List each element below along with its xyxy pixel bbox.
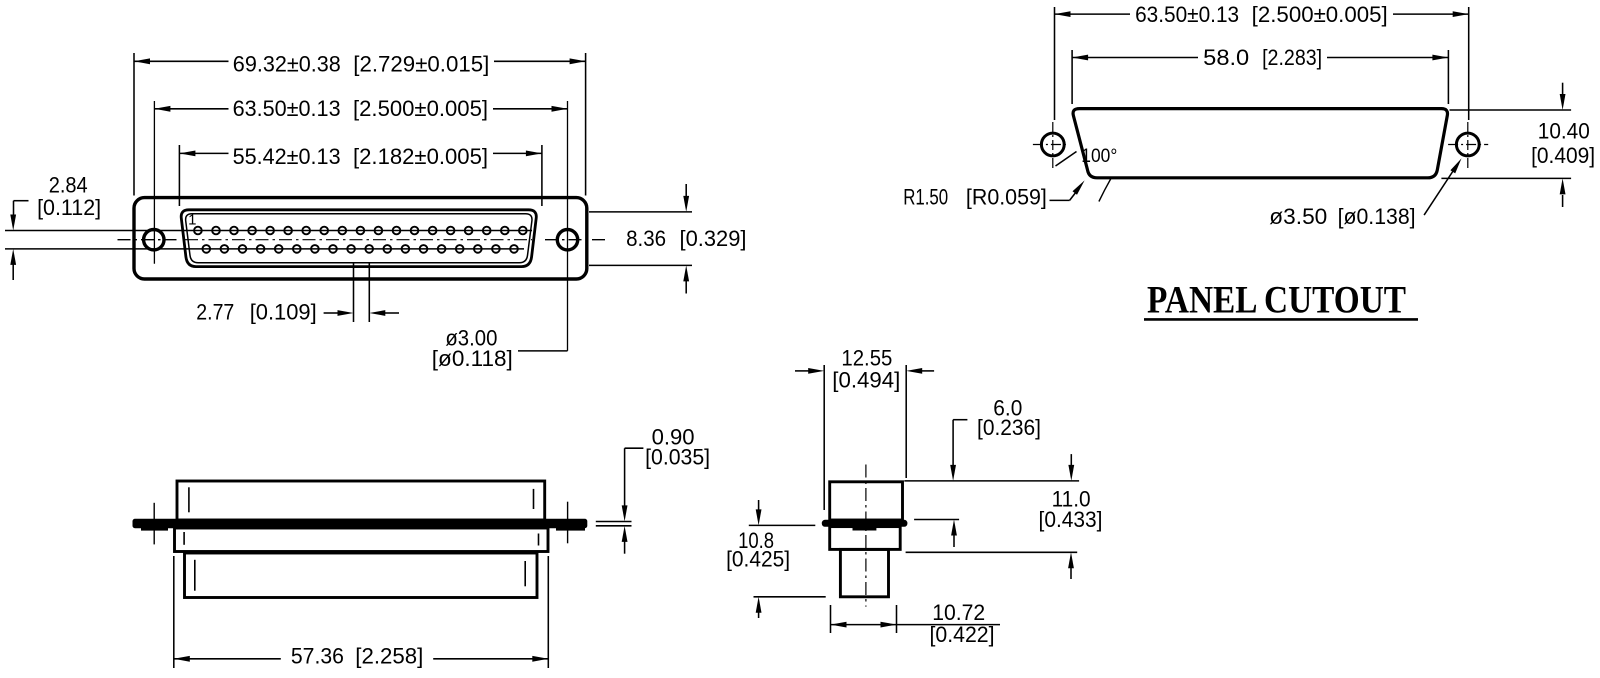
panel cutout outline [1073,109,1447,178]
front view: left mounting hole [118,101,177,264]
dimension 11.0 [0.433] front height [906,454,1103,579]
panel cutout: left mounting hole [1033,122,1068,168]
svg-text:[0.112]: [0.112] [37,195,101,220]
svg-text:[ø0.138]: [ø0.138] [1338,204,1416,229]
svg-text:[0.329]: [0.329] [680,226,747,251]
dimension 12.55 [0.494] overall depth [795,345,934,510]
end view: shell front block [830,482,903,520]
front view: bottom row pins (18) [202,245,517,253]
svg-text:8.36: 8.36 [626,226,666,251]
extension line top face [904,480,1079,482]
svg-text:R1.50: R1.50 [903,185,948,210]
svg-text:[2.500±0.005]: [2.500±0.005] [353,96,488,121]
front view: connector flange outline [134,198,587,279]
svg-text:[2.729±0.015]: [2.729±0.015] [353,51,489,76]
dimension 10.72 [0.422] body width [831,600,1001,647]
svg-text:2.77: 2.77 [196,299,234,324]
leader ø3.00 [ø0.118] mounting hole dia [432,326,568,371]
svg-text:69.32±0.38: 69.32±0.38 [233,51,341,76]
dimension 2.77 [0.109] pin pitch [196,263,399,324]
svg-text:2.84: 2.84 [49,173,88,198]
front view: pin 1 marker [188,212,196,229]
svg-text:100°: 100° [1081,146,1117,167]
svg-text:[0.494]: [0.494] [832,367,900,392]
svg-text:10.40: 10.40 [1538,118,1590,143]
svg-text:58.0: 58.0 [1203,45,1249,70]
front view: D-shell outer outline [181,210,536,267]
dimension 55.42±0.13 [2.182±0.005] insert width [179,144,542,206]
svg-text:[0.409]: [0.409] [1531,143,1595,168]
svg-text:[ø0.118]: [ø0.118] [432,346,513,371]
svg-text:[2.182±0.005]: [2.182±0.005] [353,144,488,169]
end view: rear insulator block [840,549,888,596]
svg-text:[2.500±0.005]: [2.500±0.005] [1252,2,1388,27]
svg-text:ø3.50: ø3.50 [1269,204,1327,229]
end view: middle body block [830,527,901,550]
leader ø3.50 [ø0.138] cutout hole dia [1269,158,1461,229]
dimension 63.50±0.13 [2.500±0.005] cutout hole spacing [1055,2,1469,120]
front view: right mounting hole [545,101,605,351]
front view: horizontal centerline [185,239,532,241]
end view: flange plate (edge-on) [822,520,908,531]
svg-text:[R0.059]: [R0.059] [966,185,1047,210]
dimension 2.84 [0.112] row offset [10,173,101,280]
side view: shell front block [177,481,545,520]
dimension 58.0 [2.283] cutout width [1072,45,1448,104]
dimension 8.36 [0.329] insert height [589,184,747,294]
svg-text:PANEL CUTOUT: PANEL CUTOUT [1147,279,1406,322]
svg-text:[0.433]: [0.433] [1039,507,1103,532]
svg-text:[2.258]: [2.258] [355,643,423,668]
title PANEL CUTOUT [1144,279,1418,322]
svg-text:1: 1 [188,212,196,229]
dimension 6.0 [0.236] front protrusion [914,395,1041,547]
end view: vertical centerline [865,465,867,607]
side view: rear insulator block [185,553,538,598]
svg-text:57.36: 57.36 [291,643,344,668]
front view: D-shell inner outline [186,214,532,263]
dimension 69.32±0.38 [2.729±0.015] overall width [134,51,586,195]
svg-text:[0.109]: [0.109] [250,299,317,324]
leader R1.50 [R0.059] corner radius [903,180,1084,209]
side view: middle body block [175,528,549,552]
side view: mounting flange plate (edge-on) [133,502,588,545]
svg-text:[0.422]: [0.422] [930,622,995,647]
svg-text:63.50±0.13: 63.50±0.13 [1135,2,1239,27]
dimension 57.36 [2.258] body width [174,556,549,668]
svg-text:[0.425]: [0.425] [726,547,790,572]
front view: top row pins (19) [194,227,527,235]
svg-text:[0.236]: [0.236] [977,415,1041,440]
dimension 0.90 [0.035] flange thickness [596,425,710,554]
panel cutout: right mounting hole [1448,122,1488,168]
svg-text:[2.283]: [2.283] [1262,45,1322,70]
dimension 10.40 [0.409] cutout height [1441,83,1595,207]
front view: top pin row line [5,230,532,232]
dimension 63.50±0.13 [2.500±0.005] mounting hole spacing [154,96,567,121]
svg-text:55.42±0.13: 55.42±0.13 [233,144,341,169]
svg-text:63.50±0.13: 63.50±0.13 [233,96,341,121]
svg-text:[0.035]: [0.035] [645,445,710,470]
front view: bottom pin row line [5,248,524,250]
angle 100 degrees [1056,146,1118,201]
dimension 10.8 [0.425] rear height [726,500,826,618]
